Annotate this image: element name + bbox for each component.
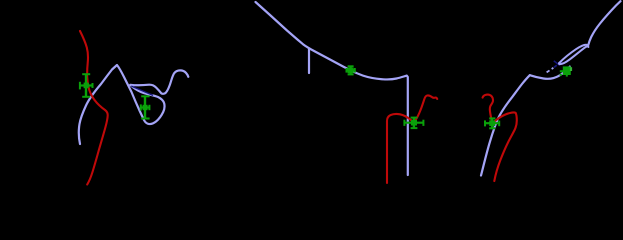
- gauge marker M1: [80, 74, 93, 97]
- navy cross mark near island: [554, 61, 560, 66]
- island loop upper-left channel: [559, 45, 588, 63]
- wire: left main stream (blue) with oxbow loop and meander: [79, 65, 188, 144]
- gauge marker M6: [560, 66, 573, 76]
- wire: left red stream: [80, 31, 108, 185]
- wire: right red stream with question-mark curl: [483, 95, 517, 181]
- navy dashed flow mark near island: [554, 61, 563, 68]
- wire: long diagonal stream with vertical outlet: [256, 2, 408, 175]
- light dashed flow mark near island: [547, 68, 554, 73]
- wire: left navy flow line: [131, 86, 153, 95]
- gauge marker M4: [404, 117, 423, 128]
- gauge marker M2: [141, 96, 150, 118]
- wire: right-lower blue stream: [481, 75, 530, 175]
- wire: right upper stream into island loop: [530, 67, 570, 79]
- wire: outlet from island to top-right corner: [588, 1, 620, 45]
- gauge marker M3: [346, 66, 355, 74]
- island loop lower-right channel: [559, 46, 588, 64]
- wire: small vertical tributary on diagonal: [308, 49, 310, 74]
- gauge marker M5: [485, 118, 500, 128]
- wire: middle red stream with hook: [387, 95, 437, 183]
